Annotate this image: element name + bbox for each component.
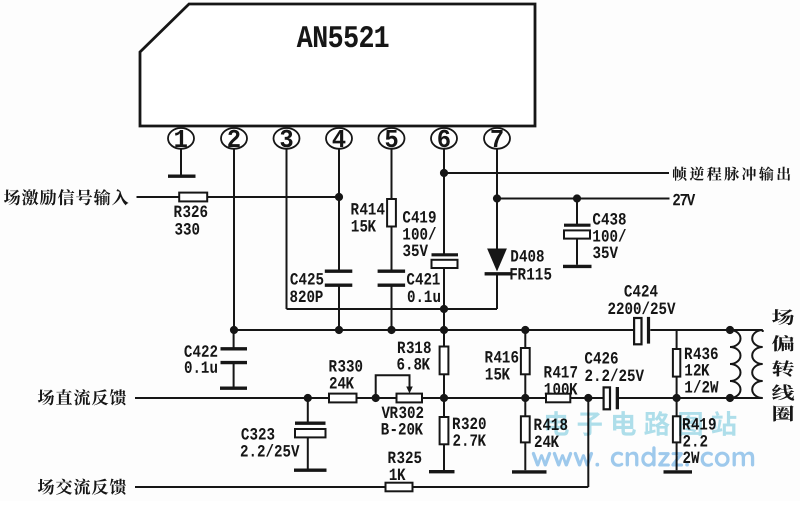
capacitor C424 (series in bus) [634,317,650,344]
wire pin6 down to C419 [443,149,445,255]
wire AC feedback line left [135,486,386,488]
label R318 6.8K [397,341,430,369]
wire line A (pin3 to diode bottom) [287,308,498,310]
ground bar at pin 1 [168,174,196,177]
label R325 1K [388,451,421,480]
junction VR302 wiper [372,394,380,402]
wire 27V supply line [497,198,670,200]
junction pin2 / bus [230,326,238,334]
pin 4 [326,128,352,149]
potentiometer VR302 body [397,394,423,403]
junction pin4 / bus [335,326,343,334]
wire to R417 [525,397,546,399]
capacitor C426 (series) [604,387,619,409]
junction AC feedback / C426 [584,394,592,402]
wire feedback to R320 [443,398,445,417]
bus wire B right segment to coil [650,330,762,332]
diode D408 [485,249,513,310]
wire R414 to C421 [391,227,393,272]
bus wire B left segment [234,329,633,331]
label C421 0.1u [407,273,440,302]
pin 1 [168,128,194,149]
resistor R417 [546,394,570,403]
wire R416 to feedback line [524,374,526,398]
capacitor C425 [325,271,353,330]
wire pin1 down [180,149,182,175]
wire R419 to ground [676,442,678,470]
inductor field deflection coil (right winding) [730,330,763,398]
pin 3 [274,128,300,149]
pin 6 [431,128,457,149]
watermark 电子电路图站 [546,411,736,436]
label C323 2.2/25V [241,428,300,457]
ground bar below R419 [664,470,693,473]
resistor R320 [440,417,449,444]
junction coil top [726,326,734,334]
label R320 2.7K [453,417,486,445]
junction pin7 / 27V line [493,194,501,202]
label R419 2.2 2W [683,418,716,463]
ground bar below C422 [220,387,247,390]
label C438 100/ 35V [593,213,626,258]
node label 27V [673,194,695,206]
junction R416/R417/R418 [521,394,529,402]
label R330 24K [329,360,362,389]
resistor R318 [440,347,449,375]
wire AC feedback line right [413,486,589,488]
ground bar below C323 [294,469,327,472]
junction pin5 / bus [387,326,395,334]
resistor R414 [387,199,396,227]
label C424 2200/25V [608,285,675,314]
capacitor C438 electrolytic [564,199,591,265]
wire VR302 to R318/R320 column [422,397,525,399]
wire bus to R416 [524,330,526,348]
label C425 820P [290,273,323,302]
node label 场交流反馈 (field AC feedback) [38,479,126,495]
label C422 0.1u [184,345,217,373]
wire input line to R326 [137,196,180,198]
wire R418 to ground [524,442,526,470]
junction pin6 / pulse line [440,169,448,177]
wire R326 to pin4 column [207,196,339,198]
node label 场直流反馈 (field DC feedback) [38,389,126,405]
resistor R418 [521,416,530,442]
wire R418 down [524,398,526,416]
resistor R419 [673,416,680,442]
junction R318/R320 [440,394,448,402]
resistor R326 [179,193,207,202]
label R416 15K [485,351,518,380]
wire pin2 down to bus [233,149,235,330]
wire pin6 column line A to bus [443,309,445,330]
label R436 12K 1/2W [685,347,719,392]
wire R330 to VR302 [357,397,397,399]
resistor R436 [673,349,680,377]
node label 场激励信号输入 (field drive signal input) [4,189,129,205]
junction C438 / 27V line [573,194,581,202]
wire R320 to ground [443,444,445,470]
pin 5 [379,128,405,149]
capacitor C419 electrolytic [432,255,459,330]
resistor R325 [386,483,413,492]
label C426 2.2/25V [585,352,644,381]
wire frame retrace pulse output line [444,172,669,174]
capacitor C323 electrolytic [295,398,326,469]
wire C426 to R436/R419 column [619,397,730,399]
wire R417 to C426 node [570,397,602,399]
junction coil bottom [726,394,734,402]
pin 7 [484,128,510,149]
label C419 100/ 35V [403,211,436,256]
wire bus to R436 [676,330,678,349]
wire bus to R318 [443,330,445,347]
node label 场偏转线圈 (field deflection coil) vertical [772,309,794,421]
wire AC feedback up to C426 node [587,398,589,487]
wire pin4 down to C425 [338,149,340,270]
op-amp IC U1 AN5521 body [140,4,535,126]
label R418 24K [534,418,567,447]
label D408 FR115 [510,250,551,280]
ground bar below R418 [512,470,547,473]
IC U1 name label AN5521 [297,26,389,47]
resistor R416 [521,348,530,374]
junction pin4 / input [335,193,343,201]
label R326 330 [174,205,207,234]
pin 2 [221,128,247,149]
node label 帧逆程脉冲输出 (frame retrace pulse output) [673,166,790,180]
watermark www.cndzz.com [532,446,754,466]
wire pin3 down to line A [286,149,288,309]
label VR302 B-20K [382,406,424,434]
resistor R330 [329,394,357,403]
inductor field deflection coil (left winding) [730,330,741,398]
wire R436 to feedback line [676,377,678,398]
junction C323 [304,394,312,402]
junction pin6 / bus [440,326,448,334]
ground bar below C438 [563,265,592,268]
ground bar below R320 [429,470,455,473]
junction R436/R419 [673,394,681,402]
wire pin5 to R414 [391,149,393,199]
wire R318 to feedback line [443,374,445,398]
label R417 100K [544,366,577,394]
junction R416 / bus [521,326,529,334]
capacitor C421 [378,271,406,330]
label R414 15K [351,203,384,231]
wire DC feedback line [135,397,329,399]
wire pin7 down to D408 [496,149,498,249]
junction pin6 / line A [440,305,448,313]
capacitor C422 [221,330,248,387]
wire R419 down [676,398,678,416]
potentiometer VR302 wiper arm [376,375,413,398]
